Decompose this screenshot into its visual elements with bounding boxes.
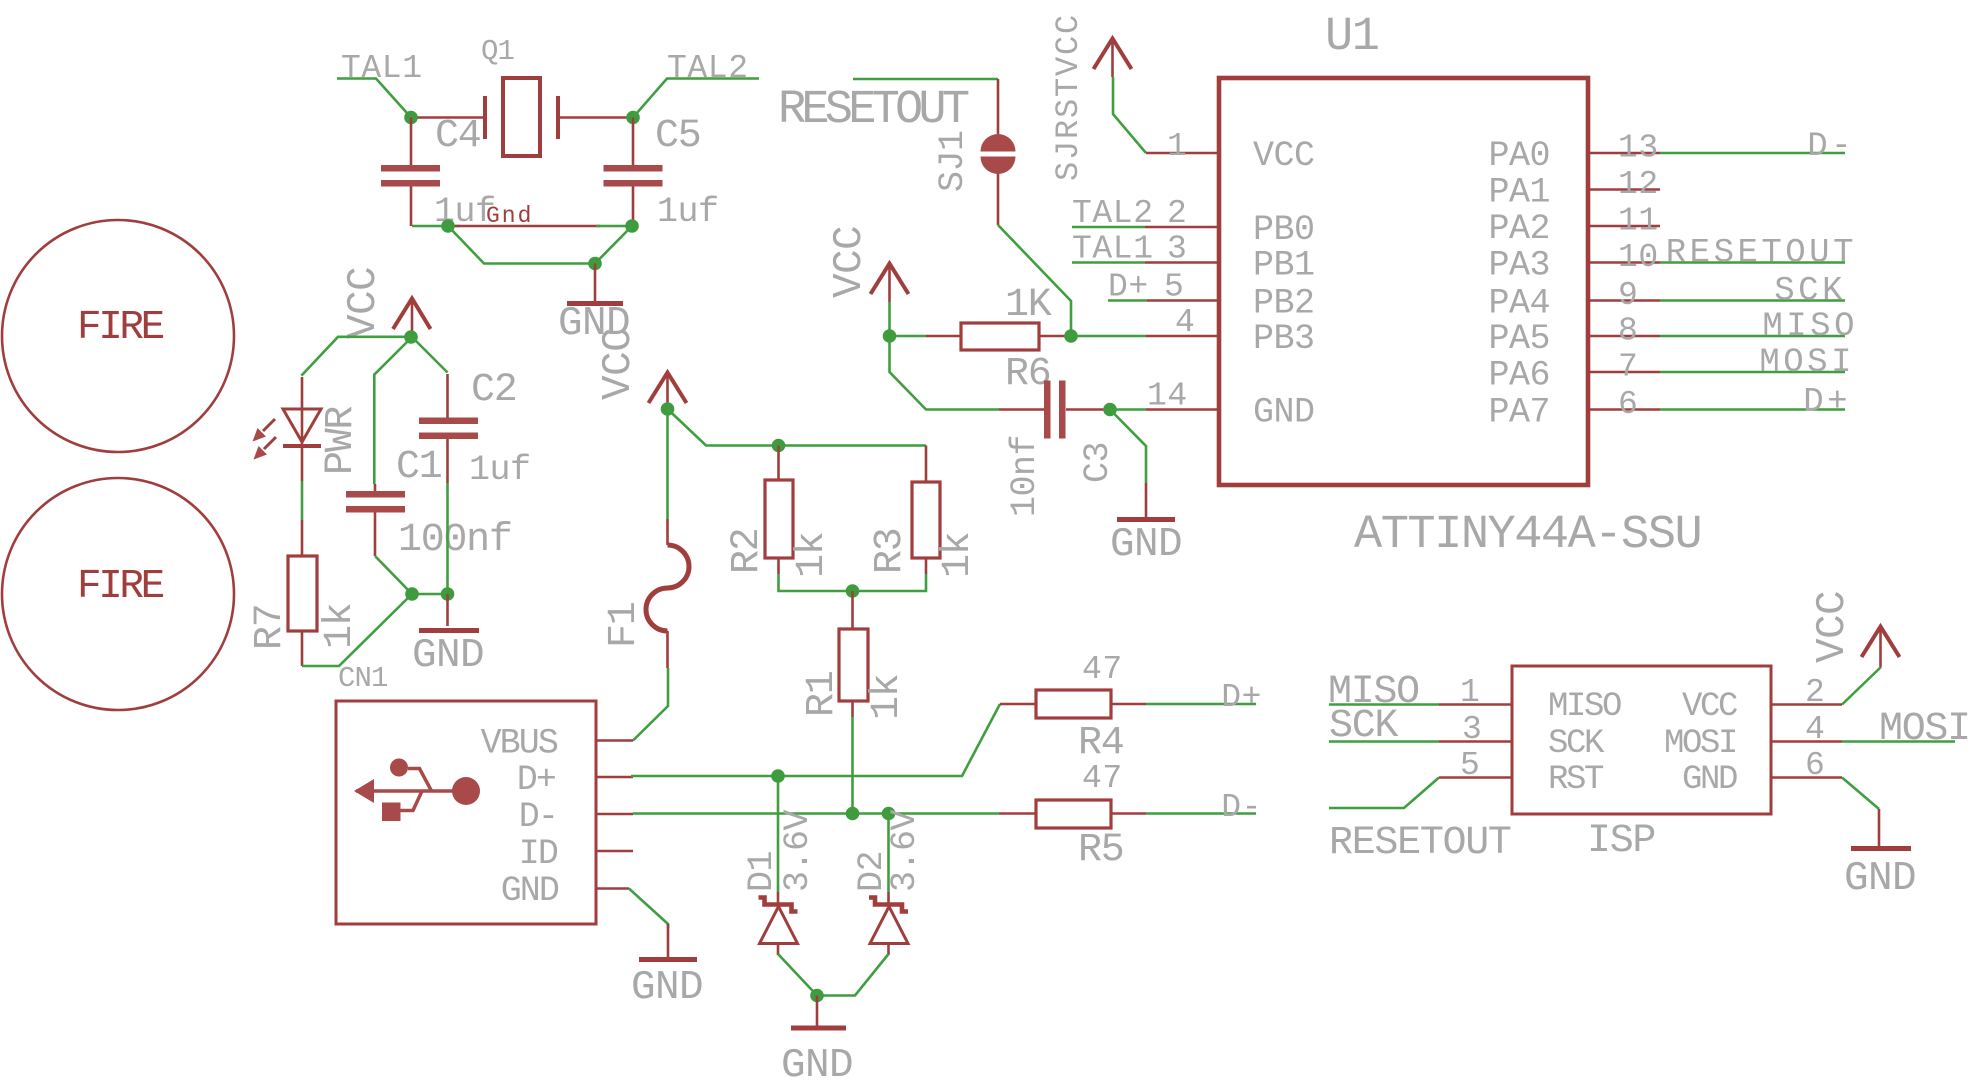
wire R7 bottom to GND node xyxy=(302,594,448,666)
svg-text:2: 2 xyxy=(1805,674,1825,711)
svg-text:3: 3 xyxy=(1167,231,1187,268)
svg-text:PA6: PA6 xyxy=(1488,356,1550,396)
svg-text:VBUS: VBUS xyxy=(481,724,558,764)
svg-text:Q1: Q1 xyxy=(481,35,514,68)
svg-text:VCC: VCC xyxy=(1810,591,1856,663)
svg-text:5: 5 xyxy=(1460,747,1480,784)
ground D1/D2 xyxy=(781,996,853,1080)
pin stub U1 PB0 2 / label TAL2 xyxy=(1145,226,1219,229)
svg-text:R5: R5 xyxy=(1078,828,1123,873)
svg-text:1k: 1k xyxy=(865,675,910,720)
svg-text:D-: D- xyxy=(519,797,557,837)
svg-text:1k: 1k xyxy=(318,604,363,649)
svg-text:D+: D+ xyxy=(1108,269,1149,306)
junction VCC node xyxy=(404,330,418,344)
wire USB GND to ground xyxy=(629,889,668,929)
wire R4 right / label D+ xyxy=(1146,703,1256,706)
pin stub ISP 2 / VCC xyxy=(1771,703,1842,706)
pin stub U1 PA2 11 xyxy=(1588,225,1660,228)
pin stub ISP 3 / net SCK xyxy=(1439,740,1512,743)
pin stub USB GND xyxy=(596,887,629,890)
capacitor C4 xyxy=(381,114,496,232)
supply VCC arrow (LED area) xyxy=(341,267,431,339)
pin stub U1 VCC 1 xyxy=(1146,152,1219,155)
svg-text:SCK: SCK xyxy=(1329,704,1398,749)
pin stub U1 PA7 6 / net D+ xyxy=(1588,408,1660,411)
pin stub U1 PA6 7 / net MOSI xyxy=(1588,371,1660,374)
svg-text:1k: 1k xyxy=(936,533,981,578)
svg-text:1: 1 xyxy=(1167,128,1187,165)
wire R1 bottom xyxy=(851,717,854,814)
junction C3/GND pin xyxy=(1103,403,1117,417)
wire D2 bottom xyxy=(817,954,889,996)
solder jumper SJ1 xyxy=(933,13,1087,225)
pin stub U1 GND 14 xyxy=(1146,408,1219,411)
svg-text:SCK: SCK xyxy=(1774,273,1846,311)
wire C2 bottom xyxy=(446,483,449,594)
junction GND tap xyxy=(588,257,602,271)
svg-text:D-: D- xyxy=(1221,789,1262,826)
wire LED cathode to R7 xyxy=(301,446,304,481)
svg-text:3.6V: 3.6V xyxy=(885,809,925,892)
pin stub Q1 right xyxy=(558,116,633,119)
svg-text:10: 10 xyxy=(1618,239,1659,276)
pin stub ISP 1 / net MISO xyxy=(1439,703,1512,706)
wire net D- xyxy=(633,812,999,815)
pin stub U1 PB3 4 xyxy=(1146,335,1219,338)
pin stub U1 PB1 3 / label TAL1 xyxy=(1145,261,1219,264)
svg-text:F1: F1 xyxy=(602,602,647,648)
svg-text:MOSI: MOSI xyxy=(1664,725,1736,763)
wire RESETOUT to SJ1 xyxy=(853,78,998,81)
wire D1 column xyxy=(777,776,780,892)
resistor R7 xyxy=(248,556,363,650)
svg-text:MISO: MISO xyxy=(1762,308,1858,346)
svg-text:ID: ID xyxy=(519,834,558,874)
svg-text:D+: D+ xyxy=(1221,679,1262,716)
svg-text:VCC: VCC xyxy=(1253,136,1315,176)
fiducial circle FIRE bottom xyxy=(2,478,234,710)
svg-text:1: 1 xyxy=(1460,674,1480,711)
svg-text:SCK: SCK xyxy=(1548,725,1605,763)
supply VCC arrow (F1 area) xyxy=(596,328,687,409)
svg-text:PA0: PA0 xyxy=(1488,136,1550,176)
junction C5/Gnd rail xyxy=(625,219,639,233)
pin stub U1 PA4 9 / net SCK xyxy=(1588,299,1660,302)
junction D2/D- xyxy=(882,807,896,821)
svg-text:Gnd: Gnd xyxy=(486,203,533,229)
svg-text:R7: R7 xyxy=(248,605,293,650)
svg-text:VCC: VCC xyxy=(1682,688,1737,726)
wire D2 column xyxy=(887,814,890,893)
wire C3 to GND pin 14 xyxy=(1110,408,1146,411)
wire R6 to PB3 pin xyxy=(1071,335,1146,338)
svg-text:SJRSTVCC: SJRSTVCC xyxy=(1050,13,1087,181)
net Gnd rail (red) xyxy=(455,225,600,228)
resistor R4 xyxy=(1000,651,1146,766)
junction R2 top xyxy=(772,439,786,453)
svg-text:VCC: VCC xyxy=(596,328,642,400)
resistor R5 xyxy=(999,760,1146,873)
svg-text:PA3: PA3 xyxy=(1488,246,1550,286)
svg-text:RST: RST xyxy=(1548,761,1604,799)
svg-text:FIRE: FIRE xyxy=(77,564,164,610)
svg-text:MISO: MISO xyxy=(1548,688,1621,726)
svg-text:FIRE: FIRE xyxy=(77,305,164,351)
svg-text:6: 6 xyxy=(1618,386,1638,423)
wire VCC to LED column xyxy=(301,337,412,376)
svg-text:RESETOUT: RESETOUT xyxy=(1666,235,1857,273)
resistor R2 xyxy=(725,446,835,579)
wire VCC branch down to C3 xyxy=(890,336,1000,410)
pin stub USB D- xyxy=(596,813,633,816)
junction R1/D- xyxy=(846,807,860,821)
wire SJ1 to PB3 node xyxy=(998,225,1071,336)
svg-text:PA5: PA5 xyxy=(1488,319,1550,359)
svg-text:R3: R3 xyxy=(868,529,913,574)
wire F1 bottom to VBUS xyxy=(633,668,668,741)
ground under crystal xyxy=(558,264,630,348)
svg-text:GND: GND xyxy=(1253,393,1315,433)
svg-text:D-: D- xyxy=(1807,128,1855,166)
svg-text:4: 4 xyxy=(1175,304,1195,341)
fuse F1 xyxy=(602,519,689,668)
svg-text:GND: GND xyxy=(1844,856,1916,902)
svg-text:R2: R2 xyxy=(725,529,770,574)
diode D2 zener 3.6V xyxy=(852,809,925,955)
svg-text:PA4: PA4 xyxy=(1488,284,1550,324)
pin stubs C5 xyxy=(632,118,635,227)
junction TAL1/Q1/C4 xyxy=(404,111,418,125)
svg-text:R6: R6 xyxy=(1005,352,1050,397)
capacitor C3 10nf xyxy=(999,381,1118,518)
ground USB xyxy=(631,924,703,1011)
wire VCC to pin 1 xyxy=(1113,77,1146,153)
svg-text:3.6V: 3.6V xyxy=(778,809,818,892)
pin stub U1 PA0 13 / net D- xyxy=(1588,152,1660,155)
diode D1 zener 3.6V xyxy=(742,809,818,955)
svg-text:7: 7 xyxy=(1618,349,1638,386)
ground LED/C1/C2 xyxy=(412,594,484,679)
crystal Q1 xyxy=(481,35,558,156)
wire TAL1 label stub xyxy=(337,79,411,118)
svg-text:5: 5 xyxy=(1164,269,1184,306)
junction GND node right xyxy=(441,587,455,601)
pin stub USB D+ xyxy=(596,776,633,779)
pin stub R7 bottom xyxy=(301,631,304,666)
svg-text:PB2: PB2 xyxy=(1253,284,1315,324)
resistor R6 1K xyxy=(926,283,1071,397)
ground C3 xyxy=(1110,483,1182,568)
svg-text:PB3: PB3 xyxy=(1253,319,1315,359)
junction diode gnd xyxy=(810,989,824,1003)
wire F1 top xyxy=(666,409,669,519)
svg-text:C3: C3 xyxy=(1078,442,1118,483)
junction C4/Gnd rail xyxy=(441,219,455,233)
svg-text:4: 4 xyxy=(1805,711,1825,748)
svg-text:GND: GND xyxy=(412,633,484,679)
wire C4 bottom to Gnd rail xyxy=(412,225,460,228)
resistor R3 xyxy=(868,446,981,579)
capacitor C1 xyxy=(346,445,531,513)
svg-text:14: 14 xyxy=(1147,378,1188,415)
svg-text:C1: C1 xyxy=(396,445,442,490)
wire VCC to R2/R3 rail xyxy=(668,409,927,446)
svg-text:C2: C2 xyxy=(471,368,516,413)
pin stub ISP 4 / net MOSI xyxy=(1771,740,1842,743)
supply VCC arrow (ISP) xyxy=(1810,591,1900,667)
pin stub U1 PA1 12 xyxy=(1588,188,1660,191)
pin stub ISP 6 / GND xyxy=(1771,776,1842,779)
pin stub U1 PA3 10 / net RESETOUT xyxy=(1588,261,1660,264)
svg-text:47: 47 xyxy=(1082,651,1123,688)
svg-text:GND: GND xyxy=(781,1043,853,1080)
svg-text:TAL1: TAL1 xyxy=(341,50,423,87)
junction R6/PB3 xyxy=(1064,329,1078,343)
wire net D+ xyxy=(631,704,1000,776)
junction D1/D+ xyxy=(771,769,785,783)
svg-text:PA2: PA2 xyxy=(1488,209,1550,249)
svg-text:C5: C5 xyxy=(655,114,700,159)
svg-text:1K: 1K xyxy=(1005,283,1052,328)
pin stubs C1 xyxy=(374,484,377,556)
wire TAL2 label stub xyxy=(633,79,759,118)
svg-text:1uf: 1uf xyxy=(469,450,531,490)
svg-text:47: 47 xyxy=(1082,760,1123,797)
svg-text:MOSI: MOSI xyxy=(1759,344,1855,382)
svg-text:PA7: PA7 xyxy=(1488,393,1550,433)
svg-text:D+: D+ xyxy=(517,760,555,800)
svg-text:SJ1: SJ1 xyxy=(933,130,973,192)
junction GND node left xyxy=(405,587,419,601)
junction R1 top xyxy=(846,584,860,598)
IC U1 ATTINY44A-SSU xyxy=(1219,11,1701,562)
svg-text:D1: D1 xyxy=(742,851,782,892)
svg-text:R1: R1 xyxy=(800,671,845,717)
wire Gnd rail to GND symbol xyxy=(448,226,632,264)
svg-text:GND: GND xyxy=(631,965,703,1011)
supply VCC arrow (U1 pin1) xyxy=(1094,39,1132,78)
svg-text:VCC: VCC xyxy=(341,267,387,339)
wire D1 bottom xyxy=(778,954,817,996)
pin stub VBUS xyxy=(596,739,633,742)
pin stub U1 PB2 5 / label D+ xyxy=(1147,299,1219,302)
svg-text:TAL2: TAL2 xyxy=(667,50,749,87)
pin stubs C2 xyxy=(446,374,449,483)
connector CN1 USB xyxy=(336,701,596,924)
pin stub U1 PA5 8 / net MISO xyxy=(1588,335,1660,338)
fiducial circle FIRE top xyxy=(2,220,234,452)
pin stub USB ID xyxy=(596,850,633,853)
junction VCC/F1 node xyxy=(661,402,675,416)
pin stub Q1 left xyxy=(411,116,485,119)
pin stubs C4 xyxy=(410,118,413,227)
svg-text:C4: C4 xyxy=(435,114,480,159)
wire VCC stem xyxy=(888,302,891,336)
svg-text:2: 2 xyxy=(1167,195,1187,232)
svg-text:PWR: PWR xyxy=(319,407,364,475)
svg-text:GND: GND xyxy=(1682,761,1737,799)
svg-text:13: 13 xyxy=(1618,130,1659,167)
svg-text:11: 11 xyxy=(1618,203,1659,240)
junction TAL2/Q1/C5 xyxy=(626,111,640,125)
svg-text:6: 6 xyxy=(1805,747,1825,784)
svg-text:PB0: PB0 xyxy=(1253,210,1315,250)
wire VCC to C2 column xyxy=(412,337,448,373)
capacitor C2 xyxy=(398,368,516,563)
svg-text:ISP: ISP xyxy=(1587,819,1655,864)
svg-text:1k: 1k xyxy=(790,533,835,578)
ground ISP xyxy=(1844,809,1916,902)
svg-text:12: 12 xyxy=(1618,166,1659,203)
svg-text:PB1: PB1 xyxy=(1253,246,1315,286)
svg-text:VCC: VCC xyxy=(827,226,873,298)
pin stub ISP 5 / net RESETOUT xyxy=(1439,776,1512,779)
svg-text:MOSI: MOSI xyxy=(1879,707,1970,752)
svg-text:PA1: PA1 xyxy=(1488,173,1550,213)
svg-text:9: 9 xyxy=(1618,277,1638,314)
supply VCC arrow (R6 area) xyxy=(827,226,909,302)
wire C3 junction to ground xyxy=(1110,410,1146,484)
svg-text:U1: U1 xyxy=(1325,11,1378,64)
capacitor C5 xyxy=(604,114,719,232)
connector ISP xyxy=(1512,666,1771,864)
junction VCC/R6 xyxy=(883,329,897,343)
svg-text:TAL1: TAL1 xyxy=(1072,231,1154,268)
svg-text:CN1: CN1 xyxy=(338,662,388,695)
USB icon xyxy=(354,759,480,822)
svg-text:GND: GND xyxy=(501,871,559,911)
resistor R1 xyxy=(800,591,910,720)
svg-text:10nf: 10nf xyxy=(1005,435,1045,517)
svg-text:GND: GND xyxy=(1110,522,1182,568)
LED PWR xyxy=(253,377,365,475)
svg-text:8: 8 xyxy=(1618,313,1638,350)
svg-text:TAL2: TAL2 xyxy=(1072,195,1154,232)
svg-text:100nf: 100nf xyxy=(398,518,512,563)
svg-text:1uf: 1uf xyxy=(657,192,719,232)
wire R2/R3 bottoms to R1 xyxy=(779,574,927,591)
svg-text:RESETOUT: RESETOUT xyxy=(1329,821,1511,866)
wire R5 right / label D- xyxy=(1146,812,1256,815)
svg-text:ATTINY44A-SSU: ATTINY44A-SSU xyxy=(1354,509,1701,562)
wire VCC to C1 column xyxy=(374,337,412,484)
svg-text:D+: D+ xyxy=(1803,384,1851,422)
wire Gnd rail right end xyxy=(596,225,632,228)
wire C1 bottom diagonal xyxy=(375,556,412,594)
svg-text:3: 3 xyxy=(1462,711,1482,748)
wire VCC junction to R6 xyxy=(890,335,927,338)
svg-text:RESETOUT: RESETOUT xyxy=(778,84,969,137)
